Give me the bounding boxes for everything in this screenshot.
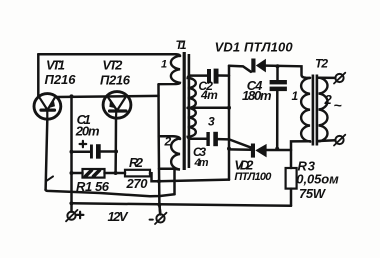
node dot x229 lower	[227, 147, 231, 151]
transformer T2 winding 1	[301, 78, 310, 142]
wire winding2 bottom to V1	[159, 168, 175, 171]
wire emitter rail y97 through VT2 to V1	[56, 96, 159, 97]
svg-text:T2: T2	[315, 57, 328, 71]
terminal minus sign	[150, 219, 153, 221]
svg-text:4m: 4m	[200, 88, 218, 102]
wire +12V vertical x71.5	[70, 96, 73, 211]
svg-text:VD1 ПТЛ100: VD1 ПТЛ100	[215, 40, 294, 55]
node dot V1 bottom rail	[157, 203, 161, 207]
svg-text:3: 3	[208, 115, 215, 129]
wire x229 to VD2 cathode	[229, 148, 251, 151]
node dot C4 bottom	[275, 147, 279, 151]
terminal output bottom	[334, 135, 345, 146]
node dot R1 right	[114, 171, 118, 175]
wire winding2 top to V1	[159, 136, 180, 139]
C1 polarity plus	[80, 141, 87, 147]
capacitor C2	[191, 69, 229, 84]
wire base bias line H1 to diode node	[159, 180, 229, 182]
node dot rail/+12V	[70, 94, 74, 98]
svg-text:R2: R2	[129, 155, 144, 170]
svg-text:R1 56: R1 56	[76, 179, 110, 194]
wire bottom rail	[72, 203, 292, 206]
svg-text:180m: 180m	[242, 88, 272, 103]
wire VT1 base horizontal to winding 2 bottom net	[46, 190, 175, 196]
svg-text:75W: 75W	[299, 186, 327, 201]
terminal output top	[334, 73, 345, 84]
wire winding3 mid tap	[188, 106, 229, 109]
wire T2 winding1 bottom to R3	[291, 141, 310, 168]
svg-text:T1: T1	[176, 38, 187, 52]
svg-text:П216: П216	[100, 73, 131, 88]
wire VD1 cathode to T2	[266, 66, 310, 78]
svg-text:П216: П216	[45, 72, 77, 87]
capacitor C3	[191, 132, 229, 146]
wire VD1 anode feed	[229, 66, 251, 72]
svg-text:20m: 20m	[75, 124, 100, 139]
resistor R3	[286, 168, 297, 206]
capacitor C1	[72, 144, 117, 159]
tick mark on VT1 base wire	[46, 176, 53, 181]
wire top rail VT1 collector to T1 winding 1	[38, 54, 180, 56]
node dot mid tap	[227, 106, 231, 110]
transformer T1 winding 3 lower	[188, 108, 196, 139]
svg-text:2: 2	[164, 135, 172, 149]
svg-text:4m: 4m	[194, 157, 209, 169]
transformer T1 winding 3 upper	[188, 76, 196, 108]
node dot bottom rail left	[69, 201, 73, 205]
wire diode node vertical x229	[228, 66, 231, 180]
wire T2 output bottom	[319, 139, 336, 142]
svg-text:~: ~	[334, 97, 342, 113]
terminal minus	[155, 205, 167, 224]
diode VD1	[251, 59, 266, 73]
terminal plus	[66, 210, 78, 221]
svg-text:12V: 12V	[108, 209, 129, 224]
VT1 emitter arrow	[49, 100, 55, 108]
node dot C4 top	[276, 64, 280, 68]
transistor VT1	[34, 94, 61, 120]
transformer T2 core	[312, 75, 319, 146]
node dot R1 left	[70, 171, 74, 175]
svg-text:2: 2	[324, 92, 333, 107]
transformer T1 winding 2	[171, 139, 180, 170]
transformer T1 core	[183, 52, 191, 170]
svg-text:1: 1	[292, 89, 299, 103]
wire VT2 base lead down to C1/R1 node	[114, 118, 117, 173]
svg-text:ПТЛ100: ПТЛ100	[234, 171, 272, 183]
transformer T2 winding 2	[319, 78, 328, 142]
diode VD2	[251, 144, 267, 158]
svg-text:0,05ом: 0,05ом	[296, 172, 339, 187]
svg-text:1: 1	[161, 59, 167, 71]
wire T2 output top	[319, 76, 336, 79]
wire VT1 collector lead	[37, 54, 40, 96]
VT2 emitter arrow	[110, 100, 116, 108]
node dot C1 right	[114, 150, 118, 154]
wire VT1 base lead down	[46, 120, 48, 190]
capacitor C4	[270, 66, 287, 149]
svg-text:VT1: VT1	[46, 58, 65, 73]
wire VD2 upper slanted feed	[230, 140, 251, 148]
transistor VT2	[103, 92, 131, 119]
resistor R2	[116, 170, 159, 181]
wire V2 loop from winding2 bottom down	[173, 169, 176, 194]
terminal plus sign	[77, 212, 84, 219]
wire VD2 anode to R3 node	[267, 149, 291, 152]
node dot C1 left	[70, 150, 74, 154]
svg-text:VT2: VT2	[102, 58, 123, 73]
resistor R1	[72, 169, 116, 178]
transformer T1 winding 1	[159, 56, 181, 84]
svg-text:270: 270	[126, 176, 149, 191]
node dot H1/V1	[157, 179, 161, 183]
wire V1 center-tap vertical	[159, 84, 161, 214]
